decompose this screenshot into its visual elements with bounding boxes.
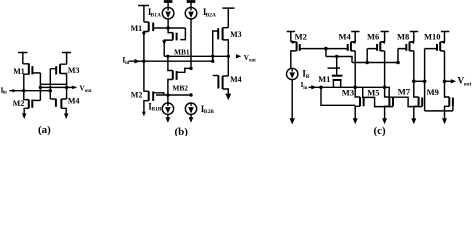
svg-text:M2: M2	[131, 90, 143, 99]
svg-text:M9: M9	[427, 87, 439, 97]
svg-text:B1B: B1B	[151, 107, 161, 113]
svg-text:out: out	[85, 89, 92, 94]
svg-text:M4: M4	[339, 32, 352, 42]
svg-text:M3: M3	[342, 88, 354, 98]
svg-text:M1: M1	[13, 67, 25, 76]
svg-text:M10: M10	[424, 32, 441, 42]
svg-text:MB1: MB1	[174, 48, 190, 57]
svg-text:B: B	[306, 74, 310, 80]
svg-text:(a): (a)	[38, 124, 51, 136]
svg-text:M8: M8	[397, 32, 409, 42]
svg-text:M7: M7	[398, 87, 411, 97]
svg-text:(b): (b)	[175, 126, 189, 136]
svg-text:M6: M6	[367, 32, 379, 42]
svg-text:M1: M1	[131, 24, 143, 33]
svg-text:(c): (c)	[374, 125, 387, 136]
svg-text:in: in	[125, 61, 129, 66]
svg-text:M3: M3	[68, 66, 80, 75]
svg-text:out: out	[464, 81, 472, 87]
svg-text:B1A: B1A	[151, 12, 161, 18]
svg-text:MB2: MB2	[172, 83, 188, 92]
svg-text:out: out	[249, 59, 256, 64]
svg-text:M1: M1	[318, 74, 330, 84]
svg-text:in: in	[303, 86, 307, 91]
svg-text:M5: M5	[367, 87, 379, 97]
svg-text:B2A: B2A	[206, 12, 216, 18]
svg-text:M4: M4	[68, 97, 80, 106]
svg-text:M3: M3	[230, 30, 242, 39]
svg-text:M2: M2	[13, 99, 25, 108]
svg-text:M4: M4	[230, 75, 242, 84]
svg-text:B2B: B2B	[204, 109, 214, 115]
svg-text:M2: M2	[295, 32, 307, 42]
svg-text:in: in	[3, 91, 7, 96]
